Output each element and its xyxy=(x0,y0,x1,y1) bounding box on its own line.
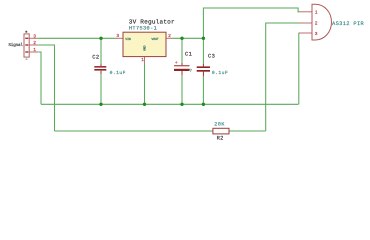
svg-text:0.1uF: 0.1uF xyxy=(212,70,228,76)
svg-text:2: 2 xyxy=(168,33,171,39)
svg-text:?: ? xyxy=(189,68,192,74)
svg-text:2: 2 xyxy=(315,21,318,27)
svg-text:+: + xyxy=(175,60,178,66)
svg-text:0.1uF: 0.1uF xyxy=(110,70,126,76)
svg-text:R2: R2 xyxy=(217,136,224,142)
svg-text:HT7530-1: HT7530-1 xyxy=(129,26,157,32)
svg-text:1: 1 xyxy=(33,47,36,53)
svg-text:20K: 20K xyxy=(214,121,225,127)
svg-text:3V Regulator: 3V Regulator xyxy=(129,18,175,25)
svg-text:Signal: Signal xyxy=(8,42,23,48)
svg-text:1: 1 xyxy=(315,10,318,16)
svg-text:1: 1 xyxy=(141,57,144,63)
svg-text:2: 2 xyxy=(33,40,36,46)
svg-text:VIN: VIN xyxy=(125,37,131,41)
svg-text:3: 3 xyxy=(315,31,318,37)
svg-text:C3: C3 xyxy=(208,54,215,60)
svg-text:AS312 PIR: AS312 PIR xyxy=(332,21,365,27)
svg-text:3: 3 xyxy=(116,33,119,39)
svg-text:C2: C2 xyxy=(92,55,99,61)
svg-text:C1: C1 xyxy=(185,52,192,58)
svg-text:VOUT: VOUT xyxy=(151,37,158,41)
svg-text:GND: GND xyxy=(143,45,147,51)
svg-text:3: 3 xyxy=(33,33,36,39)
